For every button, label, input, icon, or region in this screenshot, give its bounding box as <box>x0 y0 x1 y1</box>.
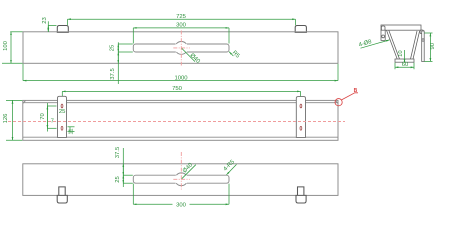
section trough left wall <box>387 30 400 59</box>
tab T3 left (bottom view) <box>57 187 67 203</box>
slot view3 <box>133 175 229 183</box>
bracket plate left view2 <box>58 96 67 137</box>
label 4-R5 view3 <box>223 159 237 175</box>
section hole left <box>382 35 385 38</box>
dimension 90 <box>424 33 436 61</box>
bottom plate line view2 <box>23 136 338 138</box>
bevel top-left view2 <box>23 100 26 103</box>
dimension 300 view3 <box>133 184 229 209</box>
dimension 70 <box>40 103 57 132</box>
svg-text:25: 25 <box>110 44 116 51</box>
svg-text:70: 70 <box>40 113 46 120</box>
detail callout B circle <box>335 99 342 106</box>
tab T4 right (bottom view) <box>296 187 306 203</box>
body outline view3 <box>23 164 338 196</box>
dimension 126 <box>3 100 23 140</box>
dimension 37.5 view1 <box>110 52 118 84</box>
svg-text:25: 25 <box>115 176 121 183</box>
hole Ø40 view3 <box>176 174 187 176</box>
body outline view2 <box>23 100 338 140</box>
svg-text:7: 7 <box>51 118 54 124</box>
hole right-bottom view2 <box>300 126 302 130</box>
dimension 25 view1 <box>110 42 133 52</box>
label Ø40 view3 <box>182 162 196 179</box>
hole left-top view2 <box>61 104 63 108</box>
svg-text:300: 300 <box>176 23 187 29</box>
svg-text:100: 100 <box>3 40 9 51</box>
section notch left <box>381 26 385 31</box>
hole left-bottom view2 <box>61 126 63 130</box>
svg-text:37.5: 37.5 <box>115 146 121 158</box>
label 4-Ø8 <box>358 39 389 49</box>
section trough right wall <box>411 31 420 59</box>
tab T1 left (top view) <box>57 26 68 33</box>
dimension 750 <box>62 86 300 96</box>
dimension 23 <box>42 17 56 32</box>
section right wall <box>422 31 425 62</box>
centerline view2 <box>8 121 345 123</box>
top rim inner line view2 <box>23 102 338 104</box>
svg-text:11: 11 <box>69 128 75 134</box>
tab T2 right (top view) <box>295 26 306 33</box>
section hole right <box>422 39 424 41</box>
svg-text:23: 23 <box>42 17 48 24</box>
label R5 view1 <box>229 50 241 60</box>
svg-text:725: 725 <box>176 14 187 20</box>
slot (300x25, R5) view1 <box>133 44 229 52</box>
svg-text:300: 300 <box>176 202 187 208</box>
bevel top-right view2 <box>335 100 338 103</box>
svg-text:1000: 1000 <box>174 75 188 81</box>
svg-text:60: 60 <box>402 62 409 68</box>
centerline vertical view3 <box>180 152 182 190</box>
detail callout B leader <box>341 93 358 100</box>
dimension 725 <box>68 14 296 26</box>
label Ø40 view1 <box>182 48 201 65</box>
svg-text:90: 90 <box>430 42 436 49</box>
svg-text:126: 126 <box>3 113 9 124</box>
svg-text:37.5: 37.5 <box>110 68 116 80</box>
svg-text:10: 10 <box>398 50 404 57</box>
centerline horizontal view3 <box>173 178 189 180</box>
centerline vertical view1 <box>180 31 182 66</box>
dimension 1000 <box>23 64 338 82</box>
bracket plate right view2 <box>296 97 305 138</box>
svg-text:25: 25 <box>59 109 66 115</box>
dimension 60 <box>395 62 414 69</box>
dimension 25 view3 <box>115 175 133 183</box>
section left flange <box>381 30 385 40</box>
svg-text:B: B <box>354 88 358 94</box>
section notch right <box>420 30 423 34</box>
section bottom plate <box>395 59 414 62</box>
hole right-top view2 <box>300 104 302 108</box>
body outline view1 <box>23 32 338 64</box>
dimension 10 <box>398 50 404 63</box>
dimension 11 plate <box>68 127 75 135</box>
section top bar <box>381 25 421 30</box>
centerline horizontal view1 <box>173 47 189 49</box>
dimension 300 view1 <box>133 23 229 44</box>
dimension 37.5 view3 <box>115 146 123 187</box>
hole Ø40 view1 <box>176 43 187 45</box>
dimension 100 <box>2 32 23 64</box>
svg-text:750: 750 <box>172 86 183 92</box>
